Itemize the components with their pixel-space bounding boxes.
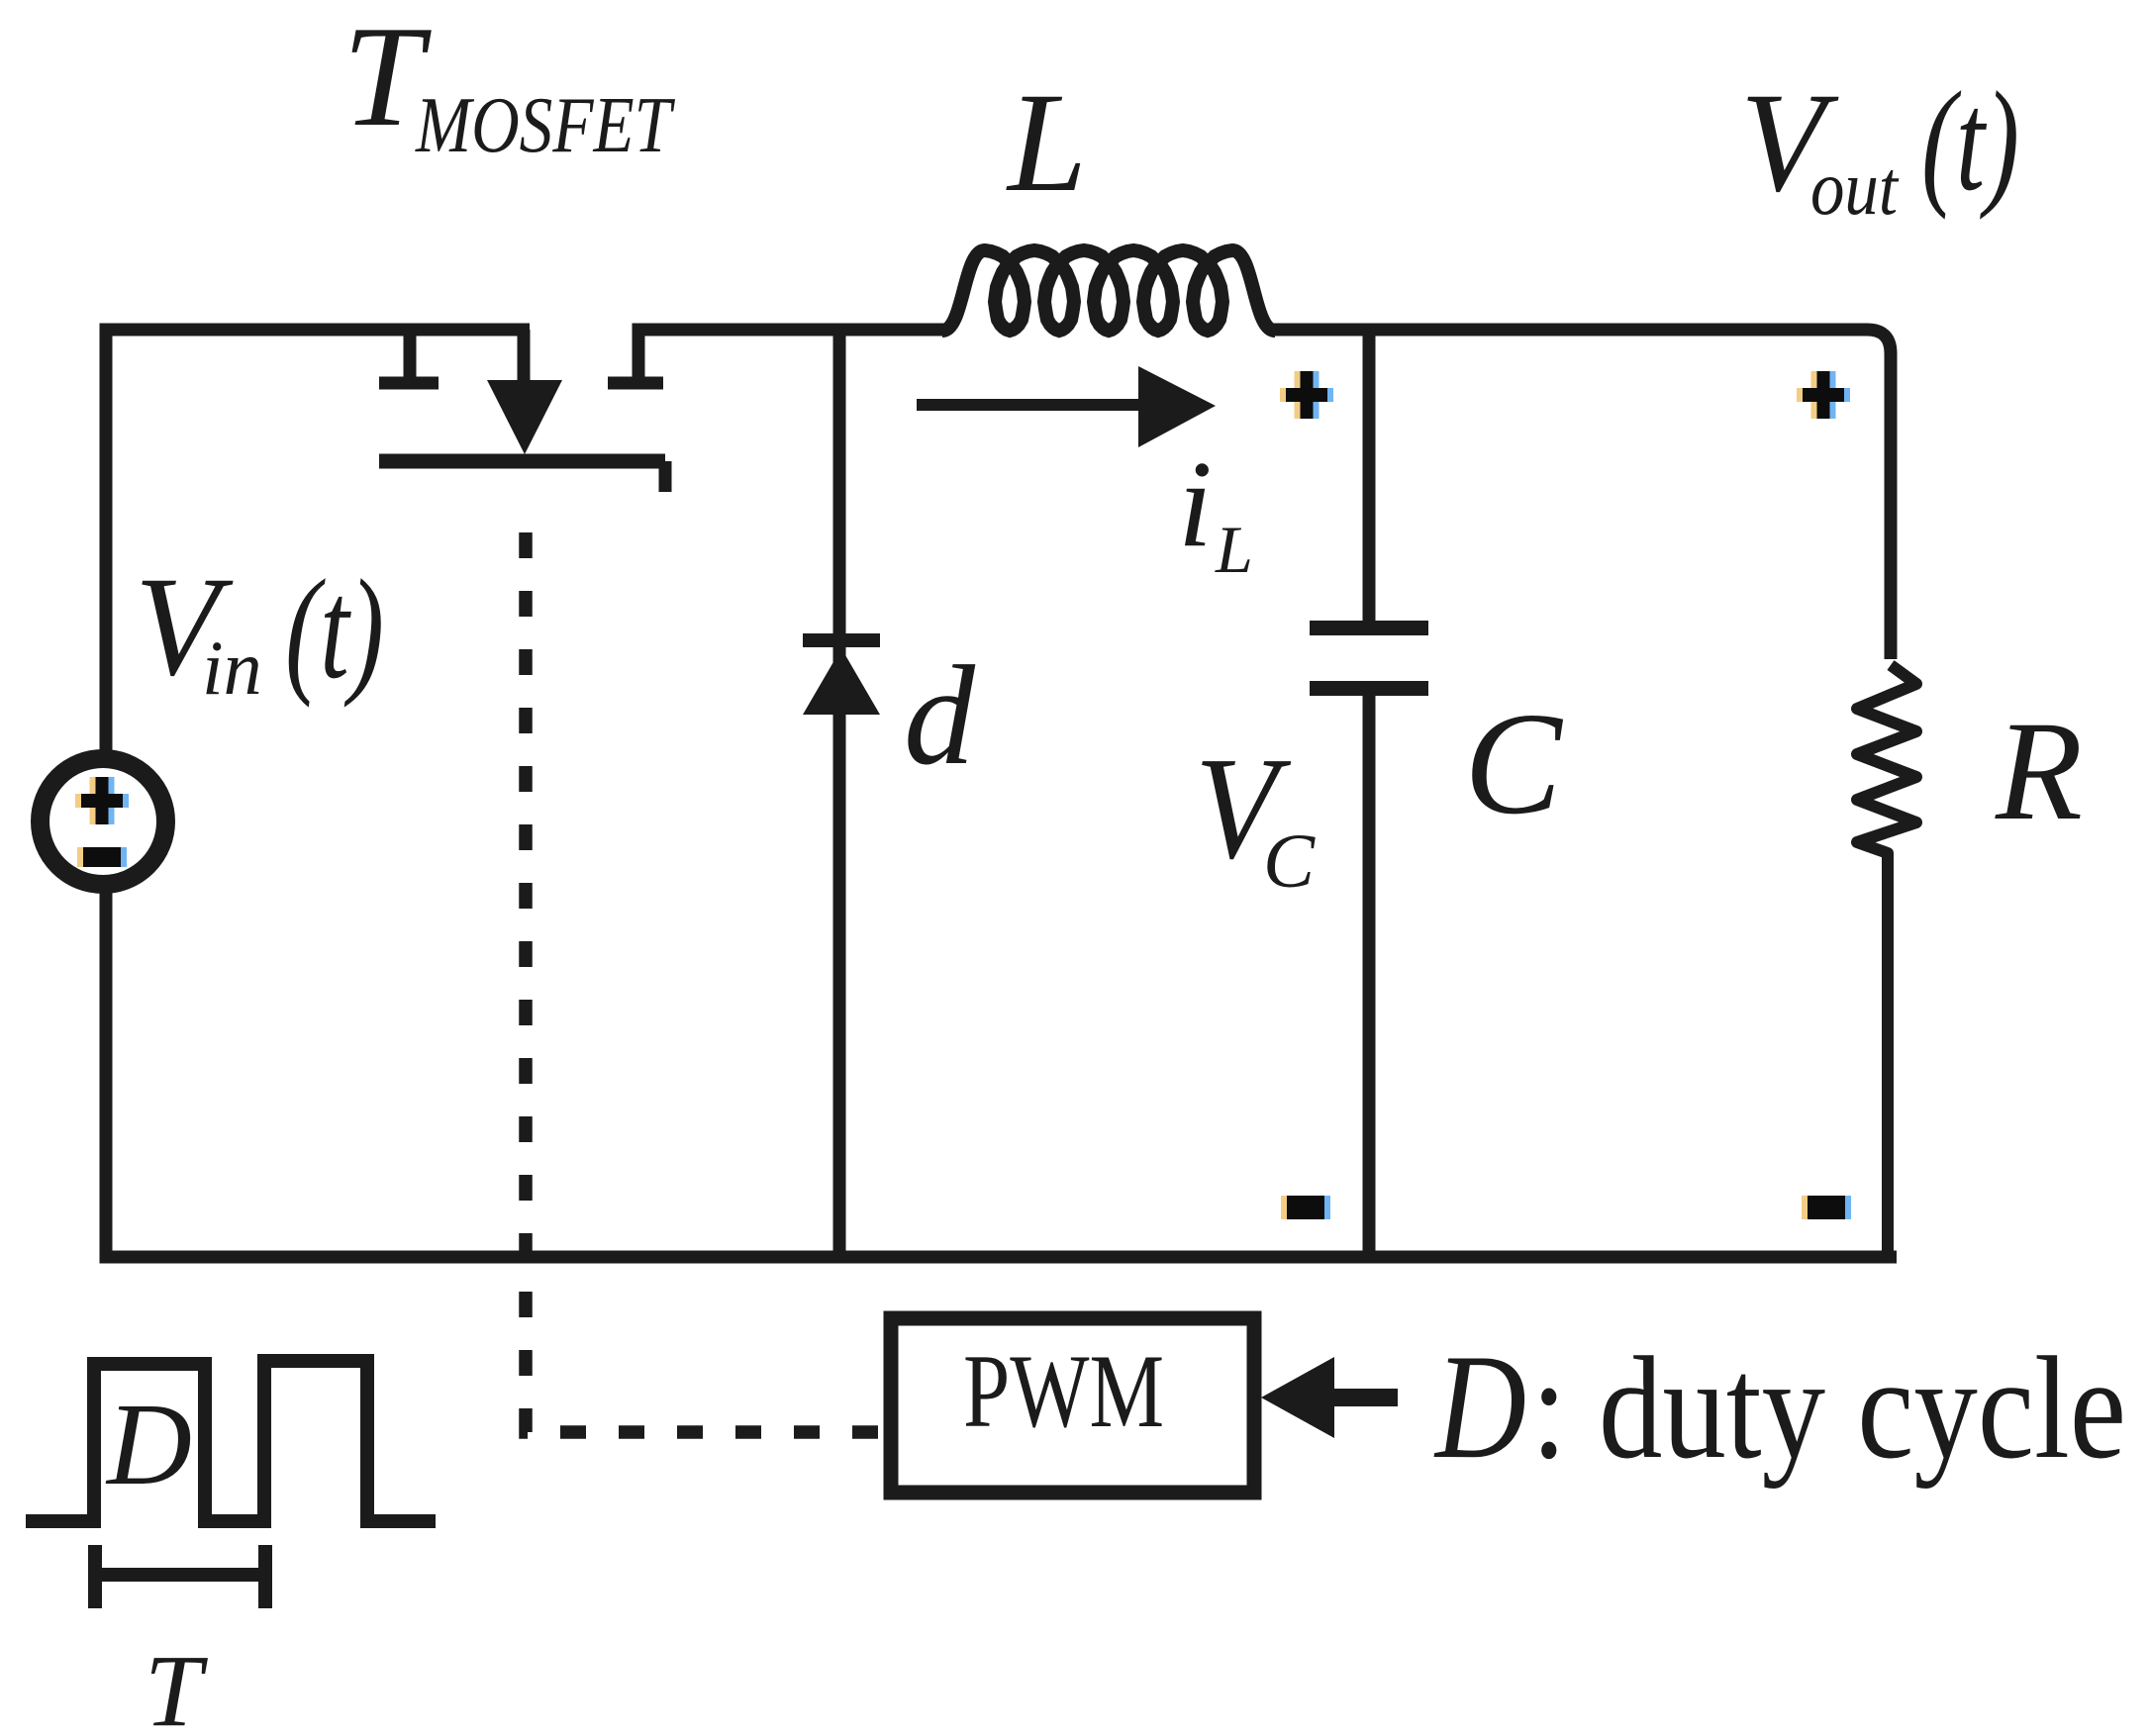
svg-text:out: out	[1810, 145, 1900, 231]
svg-text:(t): (t)	[285, 551, 384, 709]
svg-text:L: L	[1006, 64, 1087, 222]
svg-text:C: C	[1464, 683, 1564, 845]
svg-text:C: C	[1263, 818, 1316, 904]
svg-text:L: L	[1215, 512, 1253, 587]
svg-text:MOSFET: MOSFET	[415, 82, 675, 169]
svg-text:D: D	[105, 1379, 192, 1509]
svg-text:d: d	[904, 637, 976, 795]
svg-text:R: R	[1995, 693, 2083, 850]
svg-text:in: in	[202, 625, 262, 711]
svg-text:PWM: PWM	[963, 1333, 1164, 1449]
svg-text:: duty cycle: : duty cycle	[1531, 1327, 2126, 1490]
svg-text:(t): (t)	[1921, 63, 2019, 221]
svg-text:i: i	[1178, 436, 1213, 573]
svg-text:D: D	[1433, 1323, 1526, 1490]
svg-text:T: T	[145, 1634, 208, 1736]
